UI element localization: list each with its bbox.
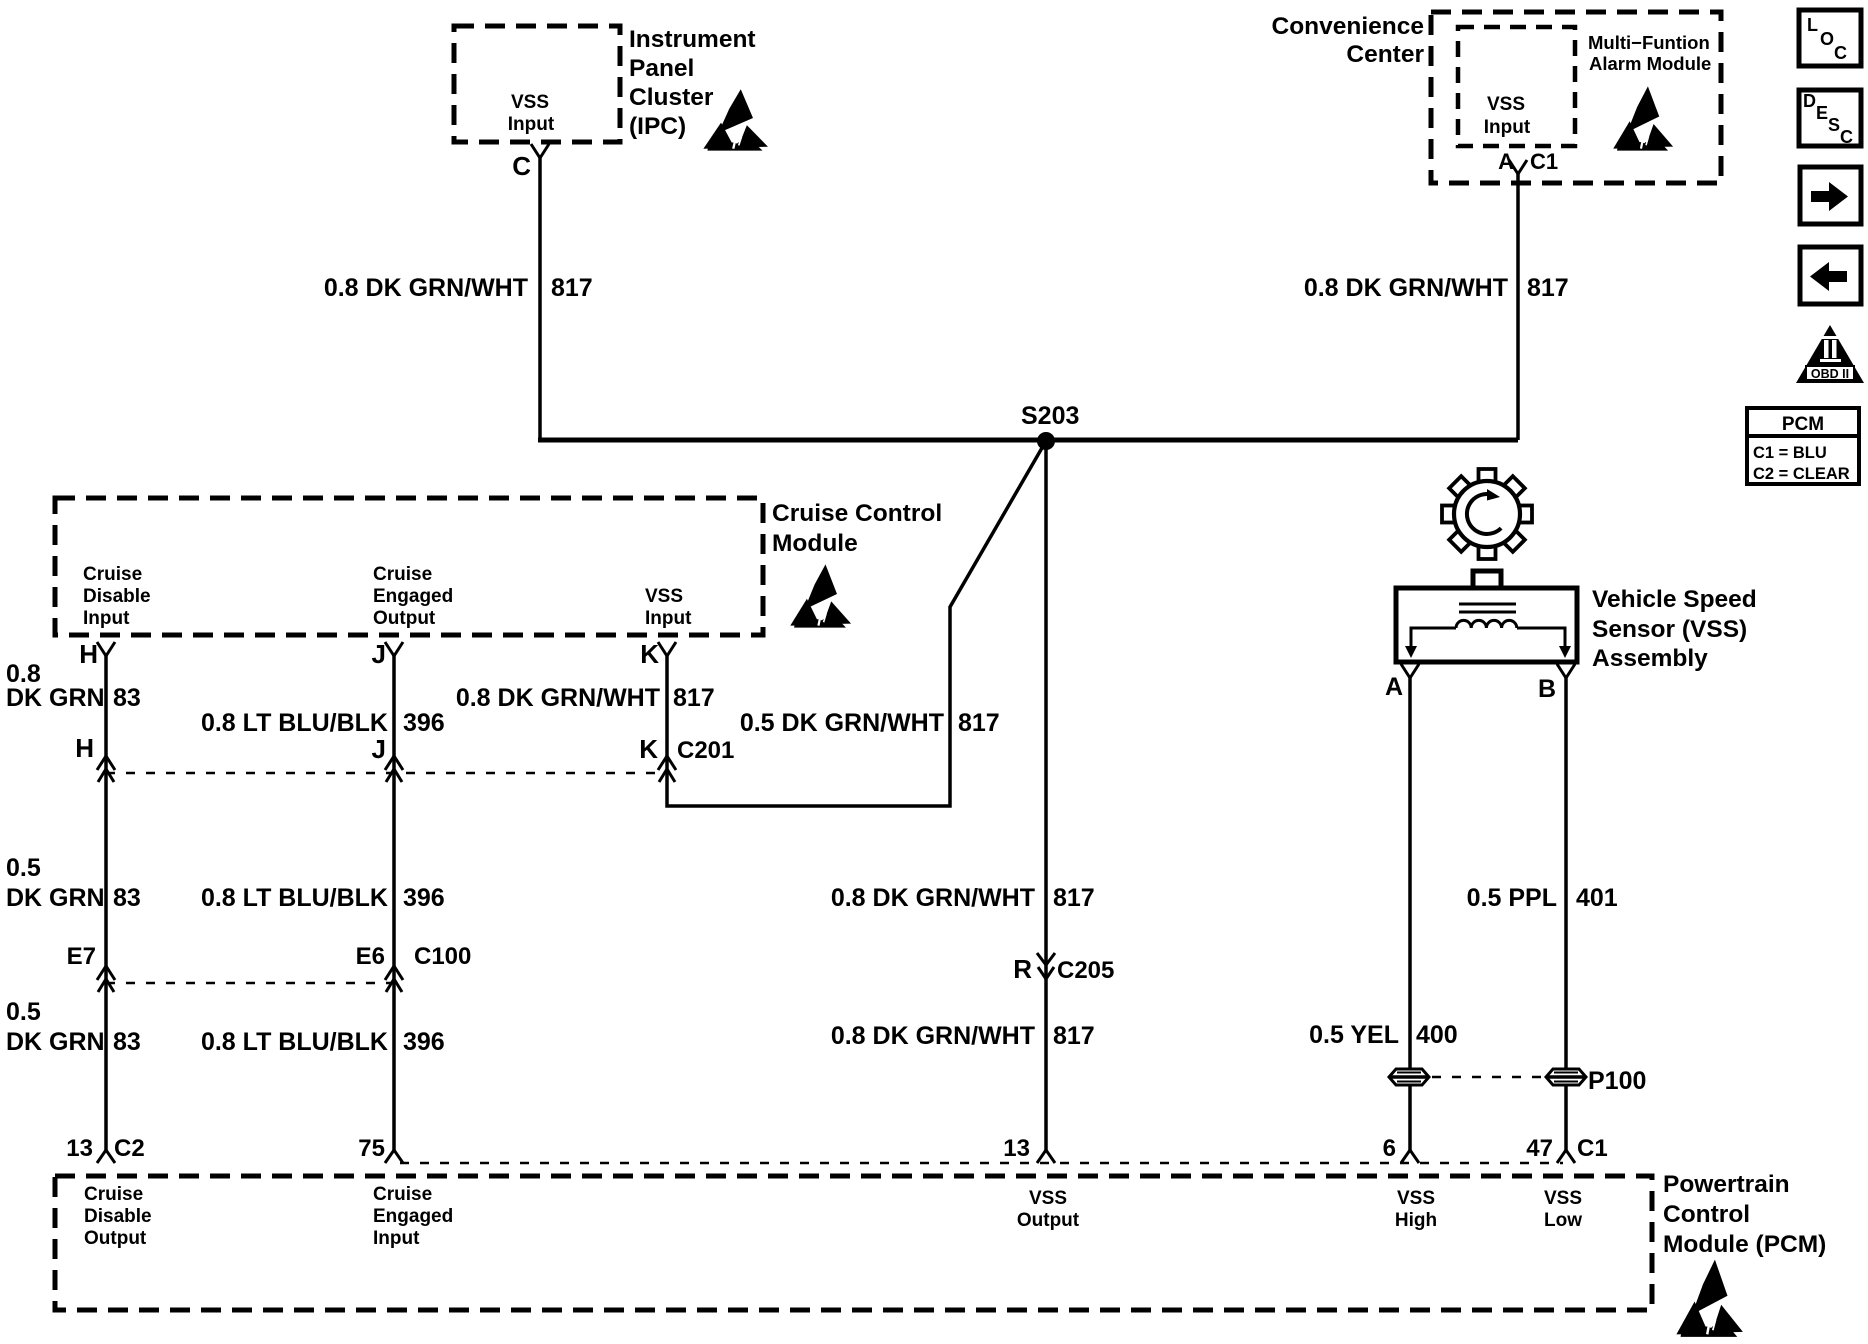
svg-text:J: J xyxy=(372,734,386,764)
svg-text:C: C xyxy=(1840,127,1853,147)
label Multi-Funtion Alarm Module xyxy=(1588,32,1711,74)
pin J of cruise control xyxy=(372,639,403,669)
svg-text:Center: Center xyxy=(1346,41,1424,68)
svg-text:A: A xyxy=(1385,673,1403,701)
svg-text:P100: P100 xyxy=(1588,1067,1646,1095)
svg-text:Input: Input xyxy=(645,608,692,629)
svg-text:Input: Input xyxy=(83,608,130,629)
wire 0.5 DK GRN/WHT 817 jog from S203 to connector C201 pin K xyxy=(667,441,1046,806)
label VSS Input (cruise) xyxy=(645,586,692,629)
svg-text:(IPC): (IPC) xyxy=(629,113,686,140)
VSS internal leads with arrows xyxy=(1405,628,1571,658)
svg-text:C201: C201 xyxy=(677,737,734,764)
svg-text:C2 = CLEAR: C2 = CLEAR xyxy=(1753,465,1850,483)
svg-text:VSS: VSS xyxy=(645,586,683,607)
svg-text:Cruise Control: Cruise Control xyxy=(772,500,942,527)
svg-text:Cruise: Cruise xyxy=(84,1184,143,1205)
wire 817 VSS input: Cruise Control pin K down to C201 xyxy=(665,654,669,779)
svg-text:Disable: Disable xyxy=(84,1206,152,1227)
label 0.8 DK GRN/WHT 817 (mid) xyxy=(831,884,1095,912)
svg-text:C1: C1 xyxy=(1577,1135,1608,1162)
module Convenience Center outer dashed box xyxy=(1431,12,1721,183)
label 0.5 DK GRN 83 (mid) xyxy=(6,854,141,912)
svg-text:B: B xyxy=(1538,675,1556,703)
svg-text:Control: Control xyxy=(1663,1201,1750,1228)
svg-text:0.8 DK GRN/WHT: 0.8 DK GRN/WHT xyxy=(1304,274,1508,302)
ESD sensitive symbol at IPC xyxy=(703,89,768,150)
ESD sensitive symbol at PCM xyxy=(1676,1260,1743,1337)
icon forward arrow button xyxy=(1800,167,1861,224)
legend PCM connector colors xyxy=(1747,408,1859,484)
label 0.5 YEL 400 xyxy=(1309,1021,1458,1049)
svg-text:VSS: VSS xyxy=(1397,1188,1435,1209)
svg-text:401: 401 xyxy=(1576,884,1618,912)
svg-text:Powertrain: Powertrain xyxy=(1663,1171,1790,1198)
PCM pin 6 xyxy=(1383,1135,1419,1163)
svg-text:400: 400 xyxy=(1416,1021,1458,1049)
svg-text:K: K xyxy=(639,734,658,764)
svg-text:S: S xyxy=(1828,115,1840,135)
svg-text:Output: Output xyxy=(373,608,436,629)
label Cruise Engaged Input xyxy=(373,1184,453,1249)
wire 396 cruise engaged: Cruise Control pin J down to PCM pin 75 xyxy=(392,654,396,1151)
svg-text:817: 817 xyxy=(958,709,1000,737)
svg-text:Sensor (VSS): Sensor (VSS) xyxy=(1592,616,1747,643)
svg-text:E6: E6 xyxy=(356,943,385,970)
svg-text:H: H xyxy=(75,733,94,763)
svg-text:O: O xyxy=(1820,29,1834,49)
label 0.8 DK GRN/WHT 817 (lower) xyxy=(831,1022,1095,1050)
svg-text:0.5 YEL: 0.5 YEL xyxy=(1309,1021,1399,1049)
svg-text:C205: C205 xyxy=(1057,957,1114,984)
svg-text:R: R xyxy=(1013,954,1032,984)
wire 817 from IPC pin C down to splice bus xyxy=(538,156,542,440)
svg-text:0.5: 0.5 xyxy=(6,854,41,882)
connector C201 terminals xyxy=(97,756,676,782)
svg-text:Instrument: Instrument xyxy=(629,26,756,53)
svg-text:47: 47 xyxy=(1526,1135,1553,1162)
label Instrument Panel Cluster (IPC) xyxy=(629,26,756,140)
svg-text:DK GRN: DK GRN xyxy=(6,884,105,912)
label 0.5 PPL 401 xyxy=(1467,884,1618,912)
svg-text:C2: C2 xyxy=(114,1135,145,1162)
label Convenience Center xyxy=(1272,13,1425,68)
svg-text:Panel: Panel xyxy=(629,55,694,82)
connector C100 row: pins E7 E6 xyxy=(67,943,472,970)
PCM pin 13 (VSS output) xyxy=(1003,1135,1055,1163)
svg-text:396: 396 xyxy=(403,1028,445,1056)
label VSS Input inside alarm module xyxy=(1484,94,1531,138)
label S203 xyxy=(1021,402,1079,430)
svg-text:C100: C100 xyxy=(414,943,471,970)
svg-text:Output: Output xyxy=(84,1228,147,1249)
label VSS Output xyxy=(1017,1188,1080,1231)
svg-text:396: 396 xyxy=(403,884,445,912)
svg-text:OBD II: OBD II xyxy=(1811,367,1849,381)
connector P100 grommet on wire B xyxy=(1546,1069,1586,1085)
svg-text:VSS: VSS xyxy=(1029,1188,1067,1209)
svg-text:83: 83 xyxy=(113,684,141,712)
svg-text:Cruise: Cruise xyxy=(373,564,432,585)
svg-text:Input: Input xyxy=(508,114,555,135)
svg-text:E7: E7 xyxy=(67,943,96,970)
label 0.8 DK GRN/WHT 817 (pin K) xyxy=(456,684,715,712)
connector C205 inline: pin R xyxy=(1013,953,1114,984)
svg-text:PCM: PCM xyxy=(1782,414,1824,435)
label Cruise Disable Input xyxy=(83,564,151,629)
svg-text:Alarm Module: Alarm Module xyxy=(1589,53,1711,74)
svg-text:J: J xyxy=(372,639,386,669)
svg-text:Vehicle Speed: Vehicle Speed xyxy=(1592,586,1757,613)
VSS pickup coil winding xyxy=(1456,620,1517,628)
svg-text:75: 75 xyxy=(358,1135,385,1162)
svg-text:VSS: VSS xyxy=(1544,1188,1582,1209)
label Cruise Engaged Output xyxy=(373,564,453,629)
svg-text:Cruise: Cruise xyxy=(83,564,142,585)
icon LOC button xyxy=(1799,10,1861,66)
label P100 xyxy=(1588,1067,1646,1095)
svg-text:0.8 LT BLU/BLK: 0.8 LT BLU/BLK xyxy=(201,884,388,912)
wire 817 from Convenience Center pin A down to bus xyxy=(1516,174,1520,440)
module Multi-Funtion Alarm Module inner dashed box xyxy=(1458,27,1575,146)
label 0.8 LT BLU/BLK 396 (lower) xyxy=(201,1028,445,1056)
svg-text:396: 396 xyxy=(403,709,445,737)
svg-text:C1 = BLU: C1 = BLU xyxy=(1753,444,1827,462)
svg-text:817: 817 xyxy=(1053,884,1095,912)
svg-text:Disable: Disable xyxy=(83,586,151,607)
svg-text:K: K xyxy=(640,639,659,669)
connector C201 row: pins H J K xyxy=(75,733,734,764)
pin C of IPC xyxy=(512,144,549,181)
svg-text:0.8 DK GRN/WHT: 0.8 DK GRN/WHT xyxy=(831,884,1035,912)
svg-text:13: 13 xyxy=(66,1135,93,1162)
svg-text:VSS: VSS xyxy=(1487,94,1525,115)
svg-text:13: 13 xyxy=(1003,1135,1030,1162)
svg-text:Input: Input xyxy=(1484,117,1531,138)
ESD sensitive symbol at alarm module xyxy=(1613,86,1673,150)
VSS assembly box xyxy=(1396,588,1577,662)
label 0.8 DK GRN/WHT 817 (convenience center wire) xyxy=(1304,274,1569,302)
svg-text:0.5 PPL: 0.5 PPL xyxy=(1467,884,1557,912)
label 0.8 LT BLU/BLK 396 (mid) xyxy=(201,884,445,912)
svg-text:Engaged: Engaged xyxy=(373,586,453,607)
connector C100 dashed line xyxy=(106,982,394,984)
pin A of VSS xyxy=(1385,664,1419,701)
pin H of cruise control xyxy=(79,639,115,669)
svg-text:83: 83 xyxy=(113,884,141,912)
svg-text:L: L xyxy=(1807,15,1818,35)
svg-text:817: 817 xyxy=(551,274,593,302)
wire 400/401 VSS low: VSS pin B down to PCM pin 47 C1 xyxy=(1564,676,1568,1151)
svg-text:0.5 DK GRN/WHT: 0.5 DK GRN/WHT xyxy=(740,709,944,737)
connector C201 dashed line xyxy=(106,772,667,774)
module Instrument Panel Cluster (IPC) dashed box xyxy=(454,26,620,142)
svg-text:Low: Low xyxy=(1544,1210,1582,1231)
svg-text:83: 83 xyxy=(113,1028,141,1056)
label Cruise Disable Output xyxy=(84,1184,152,1249)
svg-text:E: E xyxy=(1816,103,1828,123)
label 0.5 DK GRN 83 (lower) xyxy=(6,998,141,1056)
icon back arrow button xyxy=(1800,247,1861,304)
svg-text:Multi−Funtion: Multi−Funtion xyxy=(1588,32,1710,53)
label 0.8 DK GRN 83 xyxy=(6,660,141,712)
svg-text:C: C xyxy=(1834,43,1847,63)
label VSS High xyxy=(1395,1188,1437,1231)
svg-text:S203: S203 xyxy=(1021,402,1079,430)
connector P100 dashed link xyxy=(1432,1076,1543,1078)
icon DESC button xyxy=(1799,90,1861,147)
svg-text:0.8 LT BLU/BLK: 0.8 LT BLU/BLK xyxy=(201,709,388,737)
svg-text:D: D xyxy=(1803,91,1816,111)
pin A C1 of convenience center xyxy=(1498,149,1558,174)
svg-text:VSS: VSS xyxy=(511,92,549,113)
svg-text:C: C xyxy=(512,151,531,181)
label Cruise Control Module xyxy=(772,500,942,557)
svg-text:0.8 DK GRN/WHT: 0.8 DK GRN/WHT xyxy=(831,1022,1035,1050)
wire 83 cruise disable: Cruise Control pin H down to PCM pin 13 C2 xyxy=(104,654,108,1151)
module Powertrain Control Module (PCM) dashed box xyxy=(55,1176,1652,1310)
label VSS Low xyxy=(1544,1188,1582,1231)
svg-text:6: 6 xyxy=(1383,1135,1396,1162)
svg-text:Module (PCM): Module (PCM) xyxy=(1663,1231,1826,1258)
pin K of cruise control xyxy=(640,639,676,669)
svg-text:817: 817 xyxy=(673,684,715,712)
label 0.8 LT BLU/BLK 396 (upper) xyxy=(201,709,445,737)
svg-text:High: High xyxy=(1395,1210,1437,1231)
svg-text:817: 817 xyxy=(1527,274,1569,302)
label 0.5 DK GRN/WHT 817 (jog to S203) xyxy=(740,709,1000,737)
pin B of VSS xyxy=(1538,664,1575,703)
svg-text:DK GRN: DK GRN xyxy=(6,1028,105,1056)
svg-text:0.8 DK GRN/WHT: 0.8 DK GRN/WHT xyxy=(456,684,660,712)
VSS reluctor gear icon xyxy=(1442,469,1532,559)
svg-text:Module: Module xyxy=(772,530,858,557)
wire 401 VSS high: VSS pin A down to PCM pin 6 xyxy=(1408,676,1412,1151)
label VSS Input inside IPC xyxy=(508,92,555,135)
PCM pin 47 C1 xyxy=(1526,1135,1607,1163)
PCM connector row dashed line (C1) xyxy=(400,1162,1563,1164)
VSS pickup coil core xyxy=(1459,604,1516,612)
connector C100 terminals xyxy=(97,966,403,992)
svg-text:H: H xyxy=(79,639,98,669)
svg-text:Engaged: Engaged xyxy=(373,1206,453,1227)
wire 817 horizontal bus from IPC wire to Convenience Center wire through S203 xyxy=(538,438,1518,443)
VSS sensor housing tab xyxy=(1473,571,1501,588)
svg-text:Output: Output xyxy=(1017,1210,1080,1231)
svg-text:0.5: 0.5 xyxy=(6,998,41,1026)
wire 817 branch from S203 down to PCM pin 13 (VSS Output) xyxy=(1044,441,1048,1151)
icon OBD II triangle xyxy=(1796,325,1864,383)
connector P100 grommet on wire A xyxy=(1389,1069,1429,1085)
ESD sensitive symbol at cruise control module xyxy=(790,564,851,627)
svg-text:Cruise: Cruise xyxy=(373,1184,432,1205)
svg-text:Assembly: Assembly xyxy=(1592,645,1708,672)
svg-text:DK GRN: DK GRN xyxy=(6,684,105,712)
svg-text:0.8 DK GRN/WHT: 0.8 DK GRN/WHT xyxy=(324,274,528,302)
splice S203 junction dot xyxy=(1037,432,1055,450)
svg-text:817: 817 xyxy=(1053,1022,1095,1050)
svg-text:C1: C1 xyxy=(1530,149,1558,174)
label Powertrain Control Module (PCM) xyxy=(1663,1171,1826,1258)
svg-text:0.8 LT BLU/BLK: 0.8 LT BLU/BLK xyxy=(201,1028,388,1056)
PCM pin 13 C2 xyxy=(66,1135,144,1163)
label Vehicle Speed Sensor (VSS) Assembly xyxy=(1592,586,1757,672)
module Cruise Control Module dashed box xyxy=(55,498,763,635)
svg-text:Convenience: Convenience xyxy=(1272,13,1425,40)
PCM pin 75 xyxy=(358,1135,403,1163)
label 0.8 DK GRN/WHT 817 (IPC wire) xyxy=(324,274,593,302)
svg-text:Input: Input xyxy=(373,1228,420,1249)
svg-text:Cluster: Cluster xyxy=(629,84,714,111)
